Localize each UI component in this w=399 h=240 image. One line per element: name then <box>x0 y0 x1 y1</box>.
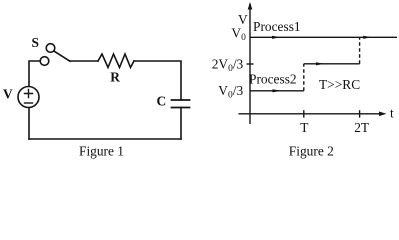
svg-text:Figure 1: Figure 1 <box>79 144 124 159</box>
Process1 line at V0 level <box>250 36 397 38</box>
plus sign of source <box>25 90 33 98</box>
dashed riser at 2T <box>359 37 361 64</box>
svg-text:Process2: Process2 <box>249 72 297 87</box>
wire bottom-left corner up to battery <box>28 108 30 140</box>
dashed riser at T <box>303 64 305 91</box>
voltage source V circle <box>18 87 39 108</box>
svg-text:Process1: Process1 <box>253 19 301 34</box>
svg-text:R: R <box>110 70 120 85</box>
svg-text:C: C <box>157 93 167 108</box>
t axis arrowhead <box>379 112 387 117</box>
wire battery top to switch fixed contact <box>29 61 40 87</box>
V axis <box>249 4 251 124</box>
arrow on V0 line right <box>363 36 372 39</box>
svg-text:Figure 2: Figure 2 <box>289 144 334 159</box>
step segment at 2V0/3 level <box>304 63 360 65</box>
bottom wire <box>29 138 181 140</box>
svg-text:2V0/3: 2V0/3 <box>212 56 244 74</box>
tick T <box>303 110 305 117</box>
minus sign of source <box>25 102 33 104</box>
wire capacitor down to bottom-right corner <box>180 108 182 140</box>
tick 2V0/3 <box>247 63 254 65</box>
svg-text:2T: 2T <box>354 120 369 135</box>
svg-text:T>>RC: T>>RC <box>319 77 360 92</box>
arrow on V0 line left <box>272 36 281 39</box>
arrow on V0/3 line <box>273 89 282 92</box>
t axis <box>238 113 384 115</box>
capacitor C top plate <box>172 99 190 101</box>
svg-text:V: V <box>3 87 13 102</box>
V axis arrowhead <box>248 2 253 10</box>
svg-text:t: t <box>390 106 394 121</box>
capacitor C bottom plate <box>172 107 190 109</box>
Process2 line at V0/3 level <box>250 90 304 92</box>
svg-text:S: S <box>32 35 39 50</box>
switch S lever-end contact circle <box>46 44 55 53</box>
arrow on 2V0/3 segment <box>316 62 325 65</box>
resistor R zigzag <box>98 54 134 68</box>
switch S fixed contact circle <box>40 57 49 66</box>
tick 2T <box>359 110 361 117</box>
wire resistor to top-right corner and down to capacitor <box>134 61 181 100</box>
svg-text:T: T <box>300 120 308 135</box>
switch lever <box>54 51 70 61</box>
wire switch to resistor <box>70 60 98 62</box>
